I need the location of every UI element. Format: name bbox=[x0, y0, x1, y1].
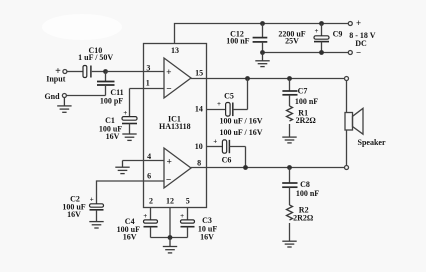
capacitor C11 bbox=[97, 82, 115, 86]
node rail gnd bbox=[260, 50, 265, 55]
wire pin 3 bbox=[106, 71, 165, 73]
svg-text:100 nF: 100 nF bbox=[226, 37, 249, 46]
svg-text:2: 2 bbox=[149, 197, 153, 206]
svg-text:6: 6 bbox=[147, 172, 151, 181]
wire C10 to node bbox=[92, 71, 106, 73]
svg-text:8: 8 bbox=[197, 158, 201, 167]
node C12 top bbox=[260, 21, 265, 26]
svg-text:100 pF: 100 pF bbox=[100, 96, 123, 105]
capacitor C9 bbox=[314, 24, 329, 53]
node C5 riser bbox=[245, 76, 250, 81]
svg-text:13: 13 bbox=[171, 46, 179, 55]
wire pin 4 bbox=[123, 160, 165, 162]
svg-text:16V: 16V bbox=[67, 210, 81, 219]
gnd terminal bbox=[62, 94, 66, 98]
svg-text:+: + bbox=[217, 100, 221, 108]
wire pin 8 output bbox=[191, 167, 344, 169]
capacitor C4 bbox=[144, 220, 158, 238]
node input junction bbox=[103, 69, 108, 74]
svg-text:−: − bbox=[166, 176, 171, 186]
svg-text:C8: C8 bbox=[300, 180, 310, 189]
capacitor C10 bbox=[83, 66, 91, 78]
svg-text:HA13118: HA13118 bbox=[159, 122, 191, 131]
capacitor C7 bbox=[282, 79, 297, 107]
wire pin 2 bbox=[150, 208, 152, 220]
node C7 top bbox=[287, 76, 292, 81]
svg-text:5: 5 bbox=[186, 197, 190, 206]
svg-text:+: + bbox=[213, 137, 217, 145]
svg-text:+: + bbox=[123, 109, 127, 117]
svg-text:25V: 25V bbox=[285, 37, 299, 46]
svg-text:2R2Ω: 2R2Ω bbox=[296, 116, 317, 125]
svg-text:+: + bbox=[356, 18, 361, 28]
wire C11 top lead bbox=[105, 72, 107, 82]
wire C11 bottom lead bbox=[105, 85, 107, 96]
ground C1 bbox=[122, 134, 136, 140]
svg-text:12: 12 bbox=[166, 197, 174, 206]
svg-text:4: 4 bbox=[147, 152, 151, 161]
op-amp A2 bbox=[164, 148, 191, 188]
terminal V+ bbox=[348, 22, 352, 26]
node pin 12 bus bbox=[168, 235, 173, 240]
wire pin 12 bbox=[169, 208, 171, 238]
wire pin 5 bbox=[187, 208, 189, 220]
svg-text:1 uF / 50V: 1 uF / 50V bbox=[78, 53, 113, 62]
IC U1 HA13118 box bbox=[144, 44, 207, 208]
svg-text:16V: 16V bbox=[123, 232, 137, 241]
svg-text:−: − bbox=[356, 48, 361, 58]
svg-text:100 nF: 100 nF bbox=[295, 97, 318, 106]
capacitor C2 bbox=[90, 204, 104, 222]
svg-text:DC: DC bbox=[355, 39, 367, 48]
svg-text:100 uF / 16V: 100 uF / 16V bbox=[219, 117, 262, 126]
capacitor C12 bbox=[253, 24, 268, 53]
capacitor C5 bbox=[226, 79, 248, 117]
svg-text:16V: 16V bbox=[106, 132, 120, 141]
svg-text:C5: C5 bbox=[224, 92, 234, 101]
terminal speaker bottom bbox=[345, 166, 349, 170]
svg-text:C6: C6 bbox=[222, 156, 232, 165]
svg-text:10: 10 bbox=[195, 142, 203, 151]
resistor R1 bbox=[287, 106, 293, 121]
wire pin 14 bbox=[207, 109, 226, 111]
ground R2 bbox=[282, 241, 296, 247]
svg-text:15: 15 bbox=[195, 69, 203, 78]
wire pin 13 bbox=[175, 24, 349, 44]
svg-text:14: 14 bbox=[195, 104, 203, 113]
wire V- rail bbox=[263, 52, 349, 54]
terminal V- bbox=[348, 51, 352, 55]
wire R2 to ground bbox=[289, 223, 291, 241]
svg-text:2R2Ω: 2R2Ω bbox=[293, 213, 314, 222]
wire pin 6 bbox=[97, 181, 165, 204]
svg-text:Input: Input bbox=[46, 75, 65, 84]
ground C2 bbox=[89, 222, 103, 228]
svg-text:+: + bbox=[166, 68, 171, 78]
ground input bbox=[57, 98, 71, 113]
svg-text:100 nF: 100 nF bbox=[296, 189, 319, 198]
svg-text:+: + bbox=[315, 27, 319, 35]
wire speaker leads bbox=[346, 81, 348, 113]
capacitor C6 bbox=[222, 140, 245, 168]
capacitor C1 bbox=[122, 89, 137, 134]
svg-text:100 uF / 16V: 100 uF / 16V bbox=[219, 128, 262, 137]
capacitor C8 bbox=[282, 168, 297, 206]
svg-text:1: 1 bbox=[146, 79, 150, 88]
wire bottom bus bbox=[151, 237, 188, 239]
ground power rail bbox=[255, 53, 269, 67]
op-amp A1 bbox=[164, 58, 191, 98]
svg-text:Gnd: Gnd bbox=[44, 92, 60, 101]
wire pin 10 bbox=[207, 146, 223, 148]
svg-text:+: + bbox=[143, 212, 147, 220]
svg-text:C9: C9 bbox=[333, 29, 343, 38]
ground IC bottom bbox=[163, 238, 177, 253]
svg-text:−: − bbox=[166, 84, 171, 94]
node C8 top bbox=[287, 165, 292, 170]
ground pin 4 bbox=[115, 161, 129, 174]
wire input to C10 bbox=[67, 71, 83, 73]
node C9 top bbox=[319, 21, 324, 26]
svg-text:3: 3 bbox=[146, 63, 150, 72]
speaker LS1 bbox=[345, 108, 363, 134]
svg-text:+: + bbox=[180, 212, 184, 220]
wire pin 15 output bbox=[191, 78, 344, 80]
node C9 bottom bbox=[319, 50, 324, 55]
svg-text:C7: C7 bbox=[298, 87, 308, 96]
capacitor C3 bbox=[181, 220, 195, 238]
wire pin 1 bbox=[130, 88, 165, 90]
svg-text:+: + bbox=[166, 157, 171, 167]
svg-text:Speaker: Speaker bbox=[358, 138, 386, 147]
svg-text:16V: 16V bbox=[200, 232, 214, 241]
wire R1 to ground bbox=[289, 124, 291, 137]
ground R1 bbox=[282, 137, 296, 143]
node C6 drop bbox=[243, 165, 248, 170]
input terminal + bbox=[63, 70, 67, 74]
terminal speaker top bbox=[345, 77, 349, 81]
svg-text:+: + bbox=[90, 195, 94, 203]
wire gnd bbox=[67, 95, 106, 97]
resistor R2 bbox=[287, 205, 293, 220]
